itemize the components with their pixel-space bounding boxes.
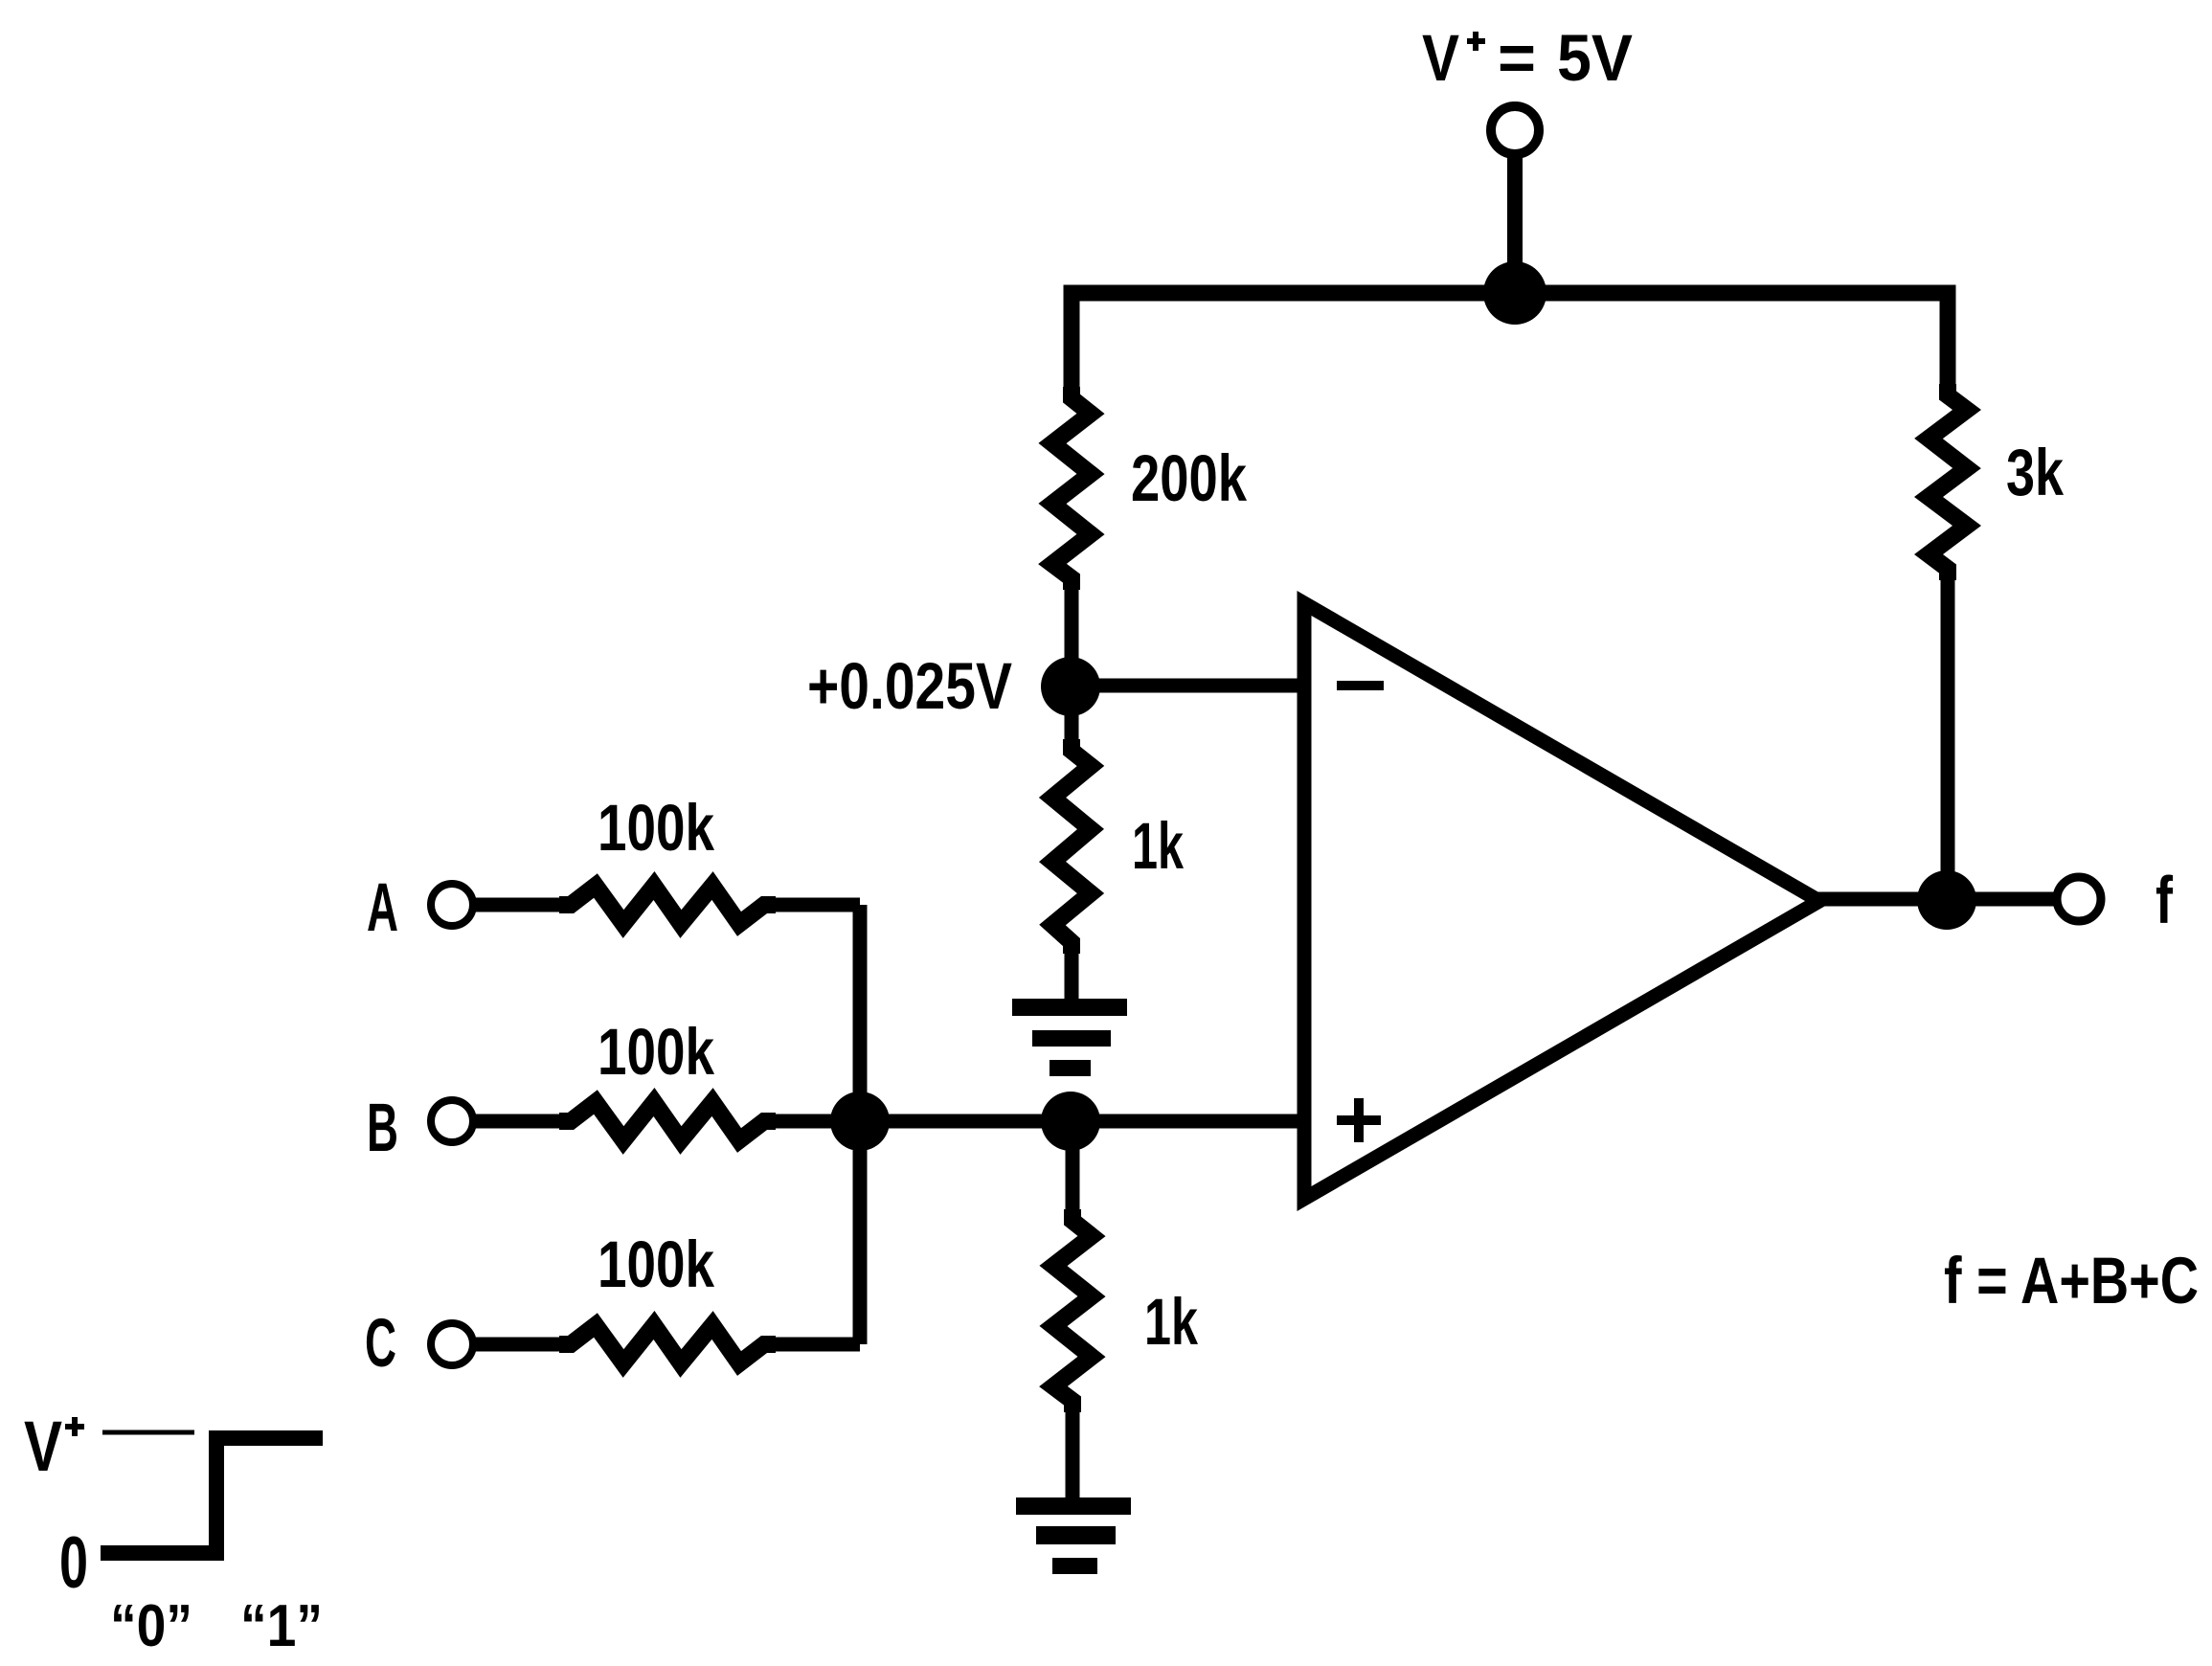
terminal C (open circle) (431, 1323, 473, 1365)
wire A resistor to bus corner (762, 898, 860, 912)
ground (lower) (1016, 1497, 1131, 1574)
waveform label V+ (24, 1407, 84, 1486)
wire top supply rail (1072, 293, 1948, 402)
svg-text:100k: 100k (598, 791, 714, 865)
svg-text:V: V (24, 1407, 62, 1486)
svg-text:A: A (367, 870, 398, 946)
resistor R 200k (1052, 387, 1091, 590)
svg-text:+0.025V: +0.025V (807, 649, 1012, 723)
wire node down to R 1k (1065, 687, 1079, 753)
wire 1k lower to ground (1066, 1399, 1080, 1500)
wire V+ stem (1507, 154, 1523, 293)
wire B resistor to noninverting input (762, 1114, 1303, 1129)
waveform step trace (101, 1438, 323, 1553)
junction noninverting node (1041, 1092, 1100, 1151)
resistor 100k (input C) (559, 1325, 776, 1363)
svg-text:0: 0 (59, 1522, 88, 1604)
svg-text:5V: 5V (1557, 21, 1633, 95)
svg-text:f: f (2156, 863, 2174, 937)
ground (upper) (1012, 999, 1127, 1076)
svg-text:f = A+B+C: f = A+B+C (1944, 1244, 2199, 1317)
wire B terminal to resistor (473, 1114, 573, 1129)
svg-text:100k: 100k (598, 1227, 714, 1301)
svg-text:200k: 200k (1131, 441, 1247, 515)
wire C resistor to bus corner (762, 1338, 860, 1352)
wire op-amp output (1817, 892, 2055, 907)
op-amp inverting input mark - (1337, 681, 1384, 690)
junction bus at B line (830, 1092, 890, 1151)
op-amp U1 (1304, 603, 1819, 1199)
resistor R 1k (lower) (1053, 1209, 1092, 1412)
net label V+ = 5V (1422, 21, 1633, 95)
svg-text:B: B (367, 1091, 398, 1166)
wire A terminal to resistor (473, 898, 573, 912)
junction V+ rail node (1483, 261, 1546, 325)
svg-text:100k: 100k (598, 1015, 714, 1089)
wire summing bus (A-B-C vertical) (853, 905, 868, 1344)
svg-text:=: = (1498, 21, 1536, 95)
terminal B (open circle) (431, 1100, 473, 1142)
svg-text:“1”: “1” (240, 1593, 323, 1659)
resistor R 3k (1929, 384, 1967, 580)
wire C terminal to resistor (473, 1338, 573, 1352)
svg-text:1k: 1k (1144, 1285, 1198, 1359)
wire 1k to ground (1065, 940, 1079, 1002)
wire 3k to output node (1941, 567, 1955, 900)
wire node to inverting input (1071, 679, 1303, 693)
svg-text:1k: 1k (1132, 809, 1184, 883)
svg-text:C: C (365, 1306, 396, 1382)
junction node +0.025V (1041, 657, 1100, 716)
terminal V+ (open circle) (1491, 106, 1539, 154)
svg-text:“0”: “0” (110, 1593, 192, 1659)
waveform V+ level reference line (102, 1430, 194, 1435)
terminal f (open circle) (2057, 877, 2101, 921)
wire node down to R 1k lower (1066, 1121, 1080, 1223)
svg-text:3k: 3k (2006, 436, 2064, 509)
resistor 100k (input B) (559, 1102, 776, 1140)
op-amp noninverting input mark + (1337, 1098, 1381, 1142)
wire 200k to +0.025V node (1065, 576, 1079, 687)
resistor R 1k (upper) (1052, 739, 1091, 954)
junction output node (1917, 870, 1976, 930)
resistor 100k (input A) (559, 886, 776, 924)
svg-text:V: V (1422, 21, 1459, 95)
terminal A (open circle) (431, 884, 473, 926)
